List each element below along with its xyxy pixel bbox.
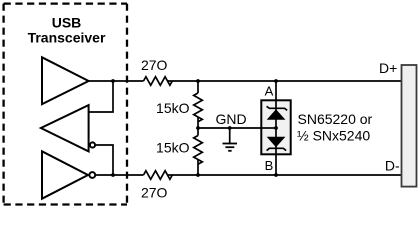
svg-text:SN65220 or: SN65220 or (298, 111, 373, 127)
svg-text:½ SNx5240: ½ SNx5240 (297, 127, 370, 143)
svg-text:D-: D- (385, 157, 400, 173)
svg-text:GND: GND (215, 111, 246, 127)
svg-text:B: B (265, 158, 274, 173)
svg-text:A: A (265, 84, 274, 99)
svg-text:USB: USB (52, 15, 82, 31)
svg-text:Transceiver: Transceiver (28, 30, 106, 46)
svg-text:15kO: 15kO (156, 100, 190, 116)
svg-text:27O: 27O (141, 185, 168, 201)
svg-text:15kO: 15kO (156, 140, 190, 156)
svg-text:D+: D+ (379, 60, 397, 76)
svg-text:27O: 27O (141, 57, 168, 73)
